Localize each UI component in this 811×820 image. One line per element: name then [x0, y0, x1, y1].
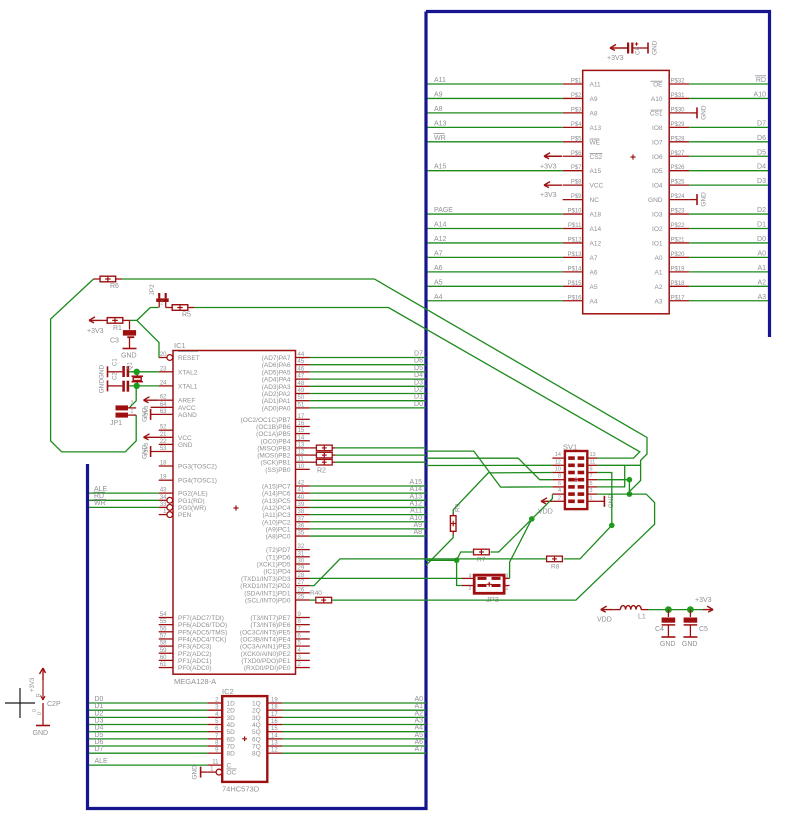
svg-text:33: 33: [160, 502, 167, 508]
svg-text:D0: D0: [414, 401, 423, 408]
wire net A4 to U1.P$16: [428, 294, 563, 301]
svg-text:GND: GND: [701, 105, 708, 120]
svg-text:GND: GND: [98, 379, 105, 394]
IC1 pin 5 (OC3A/AIN1)PE3: [240, 641, 310, 651]
svg-text:2: 2: [469, 586, 472, 592]
svg-text:(SS)PB0: (SS)PB0: [265, 467, 291, 474]
svg-text:ALE: ALE: [95, 758, 109, 765]
svg-text:IO6: IO6: [652, 154, 663, 161]
SV1 pin 10: [552, 467, 574, 475]
bus top horizontal and right vertical: [426, 12, 770, 338]
svg-text:A0: A0: [757, 250, 766, 257]
SV1 pin 3: [578, 488, 598, 496]
svg-text:1D: 1D: [227, 701, 236, 708]
IC1 pin 42 (A15)PC7: [262, 481, 310, 491]
svg-text:IO4: IO4: [652, 183, 663, 190]
IC1 pin 56 PF5(ADC5/TMS): [159, 626, 227, 636]
svg-text:1: 1: [506, 586, 509, 592]
svg-text:P$24: P$24: [671, 194, 686, 200]
junction XTAL2: [134, 369, 140, 375]
svg-text:(T3/INT7)PE7: (T3/INT7)PE7: [250, 615, 290, 622]
wire net ALE to IC2.C: [89, 758, 207, 765]
svg-text:VCC: VCC: [178, 435, 192, 442]
svg-text:10: 10: [555, 467, 561, 473]
+3V3 arrow right: [695, 597, 713, 612]
wire node to RESET: [137, 320, 159, 357]
IC1 pin 62 AREF: [159, 395, 196, 405]
IC1 pin 16 (OC1B)PB6: [256, 421, 310, 431]
wire trunk from R5 to SV1 pin 13 (inner hook): [194, 308, 639, 459]
svg-text:45: 45: [298, 359, 305, 365]
svg-text:VDD: VDD: [597, 617, 612, 624]
IC1 pin 33 PG0(WR): [159, 502, 206, 512]
memory U1 pin P$3 (A8): [563, 107, 598, 117]
svg-text:A1: A1: [655, 269, 663, 276]
svg-text:4Q: 4Q: [252, 722, 261, 729]
svg-text:OC: OC: [227, 770, 237, 777]
svg-text:A4: A4: [590, 298, 598, 305]
svg-text:D4: D4: [95, 725, 104, 732]
wire net A9 to U1.P$2: [428, 91, 563, 98]
node C2P pull element: [36, 680, 61, 708]
wire net A2 from IC2 to bus: [282, 710, 426, 717]
svg-text:29: 29: [298, 566, 305, 572]
svg-text:A2: A2: [414, 710, 423, 717]
svg-text:42: 42: [298, 481, 305, 487]
SV1 origin cross: [574, 479, 578, 481]
svg-text:(T1)PD6: (T1)PD6: [266, 554, 291, 561]
memory U1 pin P$22 (IO2): [652, 223, 689, 233]
svg-text:CS1: CS1: [650, 110, 663, 117]
wire net D6 to IC2: [89, 739, 207, 746]
SV1 pin 13: [578, 452, 598, 460]
wire net D0 to IC2: [89, 696, 207, 703]
svg-text:IO2: IO2: [652, 226, 663, 233]
svg-text:R8: R8: [551, 564, 560, 571]
svg-text:58: 58: [160, 641, 167, 647]
wire R7 right to SV1 pin 4: [491, 494, 553, 552]
svg-text:A7: A7: [414, 746, 423, 753]
svg-text:GND: GND: [660, 641, 676, 648]
wire net A5 from IC2 to bus: [282, 732, 426, 739]
svg-text:(A15)PC7: (A15)PC7: [262, 484, 291, 491]
memory U1 pin P$31 (A10): [651, 93, 689, 103]
SV1 pin 2: [552, 495, 574, 503]
svg-text:C3: C3: [110, 338, 119, 345]
IC2 pin 16 4Q: [252, 719, 282, 729]
+3V3 supply arrow on U1 CS2 pin: [540, 153, 562, 171]
svg-text:RESET: RESET: [178, 355, 200, 362]
junction XTAL1: [134, 383, 140, 389]
sheet origin cross: [5, 702, 35, 704]
capacitor C2: [108, 372, 130, 392]
IC1 pin 40 (A13)PC5: [262, 495, 310, 505]
wire net ALE to IC1.PG2: [89, 486, 159, 493]
wire net D0 from IC1 to bus: [310, 401, 426, 408]
memory U1 pin P$13 (A7): [563, 252, 598, 262]
svg-text:GND: GND: [33, 730, 49, 737]
svg-text:A9: A9: [590, 96, 598, 103]
svg-text:P$30: P$30: [671, 107, 686, 113]
svg-text:37: 37: [298, 516, 305, 522]
svg-text:A14: A14: [434, 222, 447, 229]
IC1 pin 26 (SDA/INT1)PD1: [244, 587, 310, 597]
IC1 pin 49 (AD2)PA2: [262, 388, 310, 398]
svg-text:JP2: JP2: [149, 284, 156, 296]
svg-text:GND: GND: [682, 641, 698, 648]
memory U1 pin P$17 (A3): [655, 295, 690, 305]
capacitor C6: [627, 42, 648, 55]
wire XTAL1 net with branch to JP1 pin 2: [129, 385, 159, 387]
svg-text:PF1(ADC1): PF1(ADC1): [178, 658, 212, 665]
svg-text:P$29: P$29: [671, 122, 686, 128]
svg-text:A11: A11: [590, 82, 601, 89]
wire net A14 to U1.P$11: [428, 222, 563, 229]
svg-text:C2: C2: [113, 372, 119, 380]
svg-text:IO3: IO3: [652, 212, 663, 219]
svg-text:A6: A6: [590, 269, 598, 276]
wire net A1 to U1.P$19: [689, 265, 768, 272]
svg-text:(A8)PC0: (A8)PC0: [266, 534, 291, 541]
svg-text:60: 60: [160, 655, 167, 661]
svg-text:P$23: P$23: [671, 209, 686, 215]
wire bus to R7 and JP3 pin 2: [426, 560, 462, 585]
svg-text:GND: GND: [121, 353, 137, 360]
svg-text:57: 57: [160, 633, 167, 639]
wire JP3 pin 3 up to R7 diagonal: [510, 519, 532, 579]
resistor R2 element 1: [310, 445, 335, 451]
svg-text:36: 36: [298, 523, 305, 529]
IC1 pin 41 (A14)PC6: [262, 488, 310, 498]
svg-text:56: 56: [160, 626, 167, 632]
wire net A3 from IC2 to bus: [282, 718, 426, 725]
svg-text:+3V3: +3V3: [540, 192, 557, 199]
memory U1 pin P$15 (A5): [563, 281, 598, 291]
svg-text:PAGE: PAGE: [434, 207, 453, 214]
SV1 pin 6: [552, 481, 574, 489]
svg-text:(T3/INT6)PE6: (T3/INT6)PE6: [250, 622, 290, 629]
capacitor C3 (polarized): [110, 320, 136, 348]
wire SV1 pin 11 horizontal: [597, 464, 640, 466]
svg-text:JP1: JP1: [110, 420, 122, 427]
+3V3 arrow at R1: [87, 317, 104, 335]
IC1 pin 39 (A12)PC4: [262, 502, 310, 512]
IC1 pin 3 (TXD0/PDO)PE1: [241, 655, 309, 665]
svg-text:54: 54: [160, 612, 167, 618]
+3V3 arrow on VCC: [144, 434, 151, 456]
svg-text:R40: R40: [310, 590, 322, 597]
svg-text:NC: NC: [590, 197, 600, 204]
wire trunk from R6 to SV1 pin 3 (outer hook): [122, 279, 647, 494]
IC2 pin 8 7D: [207, 741, 235, 751]
svg-text:48: 48: [298, 381, 305, 387]
wire net D4 to IC2: [89, 725, 207, 732]
wire MISO from R2 to bus: [335, 447, 426, 449]
svg-text:P$5: P$5: [571, 136, 582, 142]
svg-text:20: 20: [160, 352, 167, 358]
junction JP3 pin3 / R7 net: [529, 516, 535, 522]
svg-text:P$6: P$6: [571, 151, 582, 157]
svg-text:A0: A0: [655, 255, 663, 262]
ground symbol for C2: [98, 379, 107, 394]
svg-text:(A14)PC6: (A14)PC6: [262, 491, 291, 498]
svg-text:A4: A4: [414, 725, 423, 732]
memory U1 pin P$10 (A18): [563, 209, 602, 219]
memory U1 pin P$24 (GND): [648, 194, 689, 204]
crystal Q1: [128, 361, 144, 386]
memory U1 pin P$18 (A2): [655, 281, 690, 291]
svg-text:P$7: P$7: [571, 165, 582, 171]
svg-text:A15: A15: [410, 479, 423, 486]
IC1 pin 51 (AD0)PA0: [262, 402, 310, 412]
svg-text:R5: R5: [182, 312, 191, 319]
svg-text:4D: 4D: [227, 722, 236, 729]
svg-text:5Q: 5Q: [252, 729, 261, 736]
svg-text:2D: 2D: [227, 708, 236, 715]
IC2 pin 1 OC with bubble: [207, 767, 236, 777]
svg-text:D2: D2: [95, 710, 104, 717]
svg-text:D3: D3: [757, 178, 766, 185]
memory U1 pin P$20 (A0): [655, 252, 690, 262]
svg-text:47: 47: [298, 374, 305, 380]
wire net A12 from IC1 to bus: [310, 500, 426, 507]
svg-text:7Q: 7Q: [252, 744, 261, 751]
SV1 pin 4: [552, 488, 574, 496]
svg-text:A10: A10: [754, 91, 767, 98]
svg-text:A12: A12: [410, 500, 423, 507]
IC2 origin cross: [242, 738, 247, 740]
SV1 pin 14: [552, 452, 574, 460]
svg-text:PF2(ADC2): PF2(ADC2): [178, 651, 212, 658]
ground symbol C5: [682, 637, 698, 648]
IC1 origin cross: [233, 507, 238, 509]
svg-text:AGND: AGND: [178, 412, 197, 419]
svg-text:16: 16: [271, 719, 278, 725]
IC1 pin 8 (T3/INT6)PE6: [250, 619, 309, 629]
ground symbol on IC1 pin 53: [141, 444, 150, 459]
svg-text:13: 13: [298, 442, 305, 448]
wire net D1 to U1.P$22: [689, 222, 768, 229]
svg-text:GND: GND: [701, 192, 708, 207]
svg-text:P$21: P$21: [671, 237, 686, 243]
memory U1 pin P$29 (IO8): [652, 122, 689, 132]
svg-text:C5: C5: [699, 626, 708, 633]
svg-text:PF6(ADC6/TDO): PF6(ADC6/TDO): [178, 622, 227, 629]
svg-text:(AD6)PA6: (AD6)PA6: [262, 362, 291, 369]
svg-text:+3V3: +3V3: [695, 597, 712, 604]
ground symbol C2P: [33, 726, 51, 738]
svg-text:IC1: IC1: [174, 341, 186, 350]
svg-text:D5: D5: [95, 732, 104, 739]
+3V3 arrow up (net C2P): [30, 668, 46, 692]
wire net A15 from IC1 to bus: [310, 479, 426, 486]
svg-text:R1: R1: [113, 325, 122, 332]
IC1 pin 24 XTAL1: [159, 380, 198, 390]
wire R8 right diagonal to SV1 pin 9 net: [564, 525, 612, 559]
memory U1 pin P$30 (CS1): [650, 107, 689, 117]
svg-text:L1: L1: [638, 614, 646, 621]
svg-text:MEGA128-A: MEGA128-A: [174, 677, 216, 686]
svg-text:A1: A1: [757, 265, 766, 272]
svg-text:PF4(ADC4/TCK): PF4(ADC4/TCK): [178, 636, 226, 643]
IC2 pin 13 7Q: [252, 741, 282, 751]
wire net A7 from IC2 to bus: [282, 746, 426, 753]
svg-text:D5: D5: [414, 365, 423, 372]
svg-text:A4: A4: [434, 294, 443, 301]
svg-text:OE: OE: [653, 82, 663, 89]
IC1 pin 59 PF2(ADC2): [159, 648, 212, 658]
IC1 pin 22 GND: [159, 439, 193, 449]
junction C4: [665, 606, 672, 613]
svg-text:28: 28: [298, 573, 305, 579]
svg-text:P$25: P$25: [671, 180, 686, 186]
wire net A6 from IC2 to bus: [282, 739, 426, 746]
wire net A3 to U1.P$17: [689, 294, 768, 301]
svg-text:5D: 5D: [227, 729, 236, 736]
svg-text:A2: A2: [757, 279, 766, 286]
svg-text:(SDA/INT1)PD1: (SDA/INT1)PD1: [244, 590, 291, 597]
connector SV1 outline: [565, 451, 587, 509]
IC1 pin 64 AVCC: [151, 402, 196, 412]
svg-text:P$9: P$9: [571, 194, 582, 200]
svg-text:IO7: IO7: [652, 139, 663, 146]
svg-text:+3V3: +3V3: [607, 55, 624, 62]
resistor R2 element 3: [310, 459, 335, 465]
wire net A10 to U1.P$31: [689, 91, 768, 98]
svg-text:(T2)PD7: (T2)PD7: [266, 547, 291, 554]
svg-text:R6: R6: [110, 283, 119, 290]
wire SV1 pin 7 to pin 3 via vertical: [597, 480, 629, 494]
svg-text:61: 61: [160, 662, 167, 668]
IC2 pin 2 1D: [207, 698, 235, 708]
wire IC1 PD3 to JP3 pin 4: [310, 577, 462, 579]
svg-text:P$3: P$3: [571, 107, 582, 113]
IC1 pin 61 PF0(ADC0): [159, 662, 212, 672]
wire net A15 to U1.P$7: [428, 164, 563, 171]
wire net D3 to U1.P$25: [689, 178, 768, 185]
svg-text:32: 32: [298, 544, 305, 550]
wire net D2 to U1.P$23: [689, 207, 768, 214]
svg-text:R2: R2: [317, 468, 326, 475]
svg-text:18: 18: [271, 705, 278, 711]
svg-text:A15: A15: [590, 168, 602, 175]
svg-text:WR: WR: [434, 135, 446, 142]
jumper JP1: [110, 401, 136, 428]
svg-text:64: 64: [160, 402, 167, 408]
svg-text:(MOSI)PB2: (MOSI)PB2: [257, 453, 291, 460]
svg-text:GND: GND: [141, 407, 148, 422]
svg-text:D7: D7: [414, 351, 423, 358]
svg-text:D6: D6: [414, 358, 423, 365]
svg-text:(TXD1/INT3)PD3: (TXD1/INT3)PD3: [241, 576, 291, 583]
svg-text:8D: 8D: [227, 751, 236, 758]
memory U1 pin P$25 (IO4): [652, 180, 689, 190]
svg-text:(MISO)PB3: (MISO)PB3: [257, 445, 291, 452]
+3V3 arrow on AREF: [144, 397, 159, 419]
svg-text:D1: D1: [757, 222, 766, 229]
svg-text:P$12: P$12: [567, 237, 582, 243]
IC1 pin 12 (MOSI)PB2: [257, 450, 310, 460]
svg-text:VCC: VCC: [590, 183, 604, 190]
svg-text:R: R: [36, 693, 42, 697]
wire IC1 PD0 to R40: [310, 599, 316, 601]
bus main vertical / bottom / left (address-data bus): [88, 12, 427, 809]
IC1 pin 7 (OC3C/INT5)PE5: [240, 626, 310, 636]
svg-text:A0: A0: [414, 696, 423, 703]
memory U1 pin P$16 (A4): [563, 295, 598, 305]
memory U1 pin P$8 (VCC): [563, 180, 604, 190]
ground symbol on U1 GND pin: [689, 192, 707, 207]
svg-text:PG2(ALE): PG2(ALE): [178, 491, 208, 498]
svg-text:14: 14: [555, 452, 561, 458]
svg-text:52: 52: [160, 425, 167, 431]
svg-text:P$16: P$16: [567, 295, 582, 301]
capacitor C5 (polarized): [684, 610, 708, 637]
svg-text:PF7(ADC7/TDI): PF7(ADC7/TDI): [178, 615, 224, 622]
wire R1 to node: [130, 319, 137, 321]
svg-text:A10: A10: [410, 515, 423, 522]
svg-text:55: 55: [160, 619, 167, 625]
IC1 pin 21 VCC: [149, 432, 192, 442]
svg-text:WR: WR: [94, 500, 106, 507]
IC2 pin 9 8D: [207, 748, 235, 758]
wire node up to JP2/R5: [137, 308, 150, 321]
wire R9 top to SV1 pin 10: [453, 473, 552, 514]
svg-text:14: 14: [271, 733, 278, 739]
svg-text:A18: A18: [590, 212, 602, 219]
SV1 pin 8: [552, 474, 574, 482]
ground symbol for C6: [648, 40, 659, 55]
IC2 pin 17 3Q: [252, 712, 282, 722]
SV1 pin 12: [552, 459, 574, 467]
svg-text:D3: D3: [95, 718, 104, 725]
svg-text:59: 59: [160, 648, 167, 654]
svg-text:(AD0)PA0: (AD0)PA0: [262, 405, 291, 412]
JP3 pads and stubs: [462, 574, 510, 593]
svg-text:(A9)PC1: (A9)PC1: [266, 526, 291, 533]
svg-text:(A10)PC2: (A10)PC2: [262, 519, 291, 526]
svg-text:P$28: P$28: [671, 136, 686, 142]
svg-text:4: 4: [469, 574, 472, 580]
svg-text:R7: R7: [477, 557, 486, 564]
IC1 pin 11 (SCK)PB1: [261, 457, 310, 467]
svg-text:PEN: PEN: [178, 512, 192, 519]
svg-text:30: 30: [298, 559, 305, 565]
svg-text:+3V3: +3V3: [540, 163, 557, 170]
memory U1 pin P$2 (A9): [563, 93, 598, 103]
IC1 pin 38 (A11)PC3: [262, 509, 309, 519]
svg-text:D6: D6: [95, 739, 104, 746]
svg-text:A6: A6: [414, 739, 423, 746]
svg-text:A11: A11: [410, 508, 422, 515]
svg-text:(OC3A/AIN1)PE3: (OC3A/AIN1)PE3: [240, 644, 291, 651]
svg-text:(AD1)PA1: (AD1)PA1: [262, 398, 291, 405]
ground symbol on IC2 OC: [191, 765, 207, 780]
svg-text:23: 23: [160, 366, 167, 372]
IC1 pin 44 (AD7)PA7: [262, 352, 310, 362]
svg-text:6: 6: [558, 481, 561, 487]
IC1 pin 2 (RXD0/PDI)PE0: [244, 662, 310, 672]
svg-text:A1: A1: [414, 703, 423, 710]
wire net A0 from IC2 to bus: [282, 696, 426, 703]
svg-text:GND: GND: [191, 765, 198, 780]
IC2 pin 18 2Q: [252, 705, 282, 715]
ground symbol on SV1 pin 1: [597, 494, 615, 509]
wire net D0 to U1.P$21: [689, 236, 768, 243]
svg-text:(A13)PC5: (A13)PC5: [262, 498, 291, 505]
svg-text:2: 2: [131, 401, 134, 407]
wire net RD to U1.P$32: [689, 76, 768, 84]
